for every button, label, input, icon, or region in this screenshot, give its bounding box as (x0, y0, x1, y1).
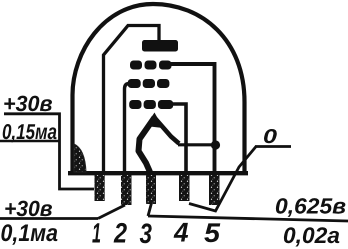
wire filament to junction (178, 143, 216, 146)
wire g3 to pin 5 (170, 64, 215, 172)
bracket bottom line (0, 140, 59, 142)
tube envelope (73, 4, 245, 174)
wire rule to pin 2 (98, 205, 125, 219)
filament left leg to pin 3 (139, 118, 155, 173)
pin 1 (95, 175, 105, 201)
pin 5 (209, 175, 220, 205)
bracket anode label to pin 1 (4, 114, 94, 189)
wire g2 to pin 2 (125, 84, 130, 173)
label filament voltage 0,625v (276, 198, 346, 217)
rule right (148, 216, 348, 221)
label screen current 0,1ma (1, 224, 57, 245)
pin number 1 (92, 223, 100, 242)
junction dot (211, 140, 220, 149)
label screen voltage +30v (5, 201, 52, 217)
anode plate A (142, 40, 178, 52)
grid g1 (control) (129, 100, 173, 109)
pin 4 (179, 175, 190, 201)
label grid voltage 0 (264, 129, 277, 143)
tube base top edge (68, 171, 248, 175)
label filament current 0,02a (284, 227, 339, 246)
label anode current 0,15ma (3, 124, 57, 142)
pin 2 (121, 175, 132, 205)
wire anode to pin 1 (104, 26, 160, 173)
pin number 3 (140, 223, 152, 243)
wire pin 3 to right rule (148, 203, 152, 216)
underline of 0 (255, 145, 291, 148)
pin 3 (146, 175, 156, 204)
filament right leg (154, 117, 180, 144)
wire 0 label to pin 4 (189, 147, 256, 212)
pin number 5 (204, 223, 220, 242)
pin number 2 (114, 223, 127, 243)
grid g3 (suppressor) (130, 61, 172, 70)
label anode voltage +30v (4, 96, 52, 112)
wire g1 to pin 4 (172, 104, 186, 172)
rule left (0, 217, 98, 220)
pin number 4 (174, 223, 189, 242)
base pinch shading blob (74, 144, 86, 172)
filament apex blob (146, 113, 164, 129)
grid g2 (screen) (128, 79, 170, 88)
